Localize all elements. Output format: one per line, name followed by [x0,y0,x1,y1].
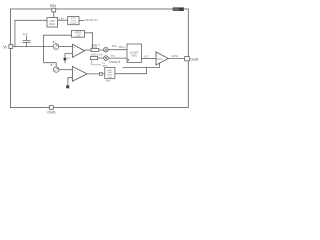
svg-text:+: + [73,68,75,72]
svg-text:-: - [73,53,74,57]
svg-text:AIN+: AIN+ [112,45,118,48]
svg-text:VI: VI [3,45,7,50]
svg-text:TRIM: TRIM [105,81,111,83]
svg-text:ON/OFF IN: ON/OFF IN [84,18,97,22]
svg-text:1.2V: 1.2V [75,34,80,37]
svg-text:0.1%: 0.1% [91,46,97,49]
svg-text:8081: 8081 [173,7,179,11]
svg-text:-: - [73,76,74,80]
svg-text:IB: IB [52,41,55,44]
svg-text:1.8V: 1.8V [59,17,64,20]
svg-text:Gate: Gate [190,56,198,61]
svg-text:REG: REG [49,22,55,26]
svg-text:ADC+: ADC+ [119,46,126,49]
svg-text:AIN-: AIN- [111,54,116,57]
svg-text:ADC: ADC [131,54,137,58]
svg-text:+: + [73,45,75,49]
svg-text:GND: GND [47,110,56,114]
svg-text:LOGIC: LOGIC [70,23,77,25]
svg-text:VIN: VIN [50,3,57,8]
svg-text:1µF: 1µF [23,32,28,36]
svg-text:IB: IB [50,64,53,67]
svg-text:GATE: GATE [171,55,178,58]
svg-text:A=1: A=1 [157,57,162,61]
svg-text:100Ω 0.1%: 100Ω 0.1% [91,54,104,57]
svg-text:OUT: OUT [144,55,150,58]
svg-text:AMP: AMP [103,64,108,67]
svg-text:CSOUT: CSOUT [109,60,121,64]
